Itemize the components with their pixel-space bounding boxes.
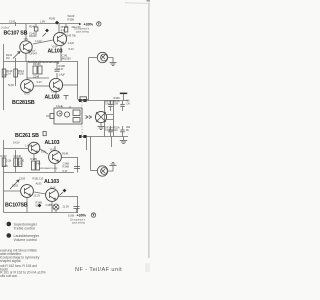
- svg-text:AL103: AL103: [44, 179, 59, 185]
- svg-text:1.45V: 1.45V: [25, 144, 32, 148]
- svg-text:C15B: C15B: [46, 203, 53, 207]
- svg-text:14.5V: 14.5V: [13, 141, 20, 145]
- svg-text:5(4)V: 5(4)V: [8, 83, 14, 87]
- svg-text:5.2V: 5.2V: [69, 47, 74, 51]
- svg-text:1.2k: 1.2k: [6, 159, 11, 163]
- svg-text:R162: R162: [12, 184, 19, 188]
- svg-text:+30%: +30%: [84, 23, 94, 27]
- svg-text:S: S: [8, 222, 10, 226]
- svg-text:R14B: R14B: [31, 157, 38, 161]
- svg-text:shaped signal.: shaped signal.: [0, 259, 21, 263]
- svg-text:BC107 SB: BC107 SB: [4, 31, 28, 37]
- svg-text:R14B: R14B: [63, 164, 70, 168]
- svg-text:AL103: AL103: [45, 140, 60, 146]
- svg-text:Y103: Y103: [50, 148, 56, 152]
- svg-text:R146: R146: [29, 25, 36, 29]
- svg-text:21.5V: 21.5V: [63, 205, 70, 209]
- svg-text:C148: C148: [33, 75, 40, 79]
- svg-text:C14: C14: [6, 72, 11, 76]
- svg-text:1.12V: 1.12V: [35, 39, 42, 43]
- svg-text:R149: R149: [114, 96, 121, 100]
- svg-text:0.47: 0.47: [63, 169, 68, 173]
- svg-text:R145: R145: [49, 17, 56, 21]
- svg-text:Treble control: Treble control: [14, 226, 36, 230]
- svg-text:quick setting: quick setting: [72, 222, 85, 225]
- svg-text:21.2V: 21.2V: [34, 194, 41, 198]
- svg-text:CA24 C108: CA24 C108: [105, 102, 119, 106]
- svg-text:5.03k: 5.03k: [68, 214, 75, 218]
- svg-text:AL103: AL103: [48, 49, 63, 55]
- svg-text:AL103: AL103: [45, 94, 60, 100]
- svg-text:0.47: 0.47: [59, 67, 64, 71]
- svg-text:14B: 14B: [36, 162, 41, 166]
- svg-text:840/25V: 840/25V: [62, 56, 72, 60]
- svg-text:0 1µF: 0 1µF: [56, 104, 63, 108]
- svg-text:3.2V: 3.2V: [37, 80, 42, 84]
- svg-text:Y103: Y103: [24, 92, 30, 96]
- svg-text:+30%: +30%: [77, 214, 87, 218]
- svg-text:C153: C153: [19, 177, 26, 181]
- svg-text:51B: 51B: [36, 203, 41, 207]
- svg-text:CN: CN: [126, 101, 130, 105]
- svg-text:Y103: Y103: [51, 90, 57, 94]
- svg-text:olts coil wal.: olts coil wal.: [0, 274, 18, 278]
- svg-text:R100: R100: [18, 72, 25, 76]
- svg-text:1.4µV: 1.4µV: [68, 41, 75, 45]
- svg-text:BC261 SB: BC261 SB: [15, 133, 39, 139]
- svg-text:Volume control: Volume control: [14, 238, 38, 242]
- svg-text:11k superton b.: 11k superton b.: [70, 219, 86, 222]
- svg-text:Y104: Y104: [50, 186, 56, 190]
- svg-text:omuseum.org: omuseum.org: [40, 166, 58, 170]
- svg-text:quick setting: quick setting: [76, 31, 89, 34]
- svg-text:C142: C142: [9, 20, 16, 24]
- svg-text:R143: R143: [1, 154, 8, 158]
- svg-text:C145 C110: C145 C110: [105, 128, 118, 132]
- svg-text:NF - Teil/AF unit: NF - Teil/AF unit: [75, 267, 122, 273]
- svg-text:5.2V: 5.2V: [41, 150, 46, 154]
- svg-text:R161 110: R161 110: [33, 177, 44, 181]
- svg-text:BC281SB: BC281SB: [12, 100, 35, 106]
- svg-text:1.4µF: 1.4µF: [59, 73, 66, 77]
- svg-text:2x10mV: 2x10mV: [1, 28, 10, 30]
- svg-text:AL93: AL93: [36, 182, 42, 186]
- svg-text:R143 70k: R143 70k: [65, 34, 76, 38]
- svg-text:DF140: DF140: [14, 154, 22, 158]
- svg-text:DF047: DF047: [30, 51, 38, 55]
- svg-text:BC107SB: BC107SB: [5, 203, 28, 209]
- svg-text:DF196: DF196: [33, 62, 41, 66]
- svg-text:R10B: R10B: [68, 17, 75, 21]
- svg-text:1.8V: 1.8V: [40, 20, 45, 24]
- svg-text:R148: R148: [62, 152, 69, 156]
- svg-text:1M: 1M: [6, 56, 10, 60]
- svg-text:Y104: Y104: [52, 44, 58, 48]
- svg-text:220: 220: [18, 161, 23, 165]
- svg-text:DF046: DF046: [29, 34, 37, 38]
- svg-text:22k ±10: 22k ±10: [72, 25, 81, 29]
